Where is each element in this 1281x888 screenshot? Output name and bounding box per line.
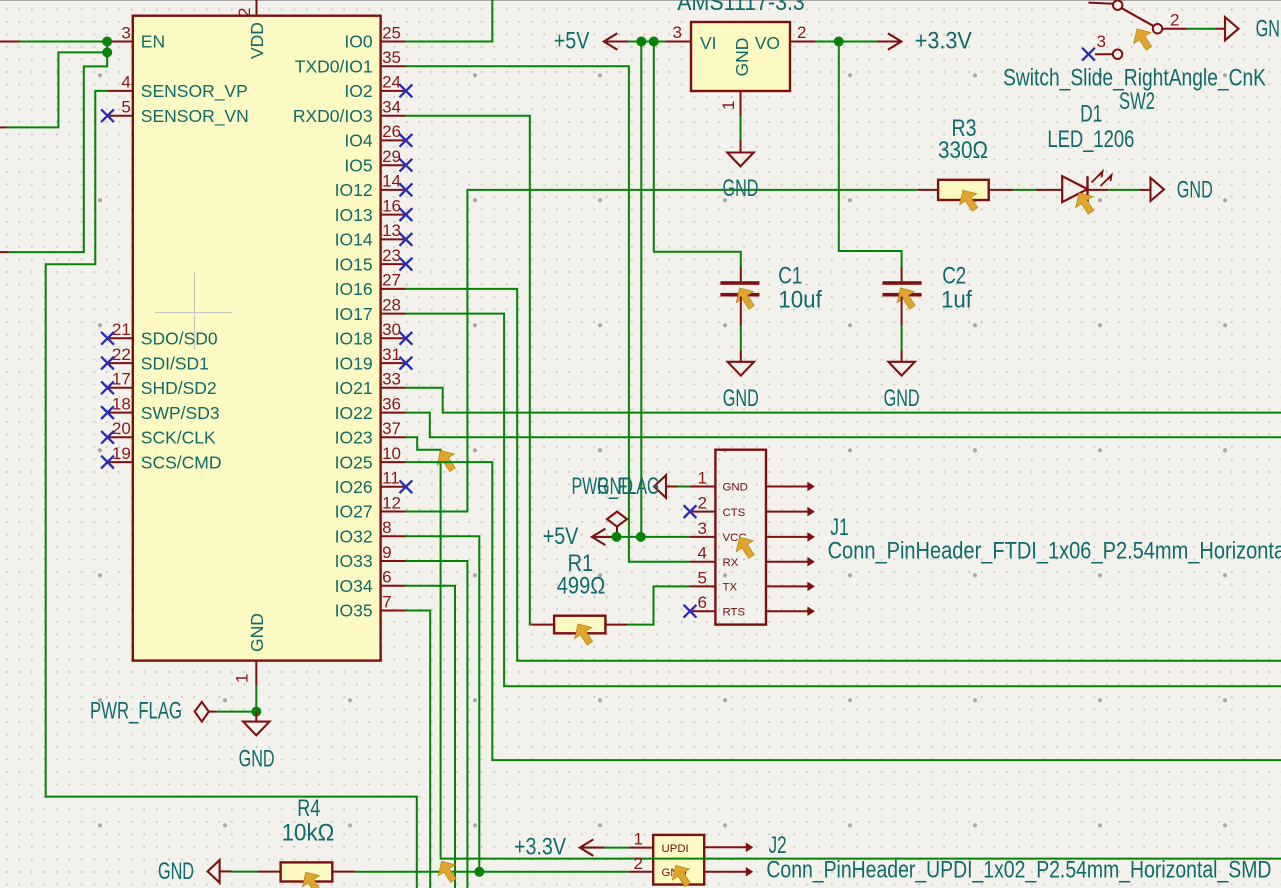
ESP32 module U1 body: [133, 16, 381, 661]
svg-text:IO35: IO35: [335, 601, 373, 621]
svg-text:+5V: +5V: [554, 28, 590, 55]
svg-text:13: 13: [382, 221, 401, 240]
svg-text:TXD0/IO1: TXD0/IO1: [295, 56, 373, 76]
svg-text:R4: R4: [297, 795, 320, 822]
U2 pin 2 VO stub: [790, 41, 815, 43]
svg-text:1: 1: [719, 101, 738, 110]
svg-text:IO25: IO25: [335, 452, 373, 472]
U1 right pin 23 IO15: [381, 263, 406, 265]
wire +5V to U2 VI: [628, 41, 666, 43]
wire IO35 to bottom edge: [406, 611, 430, 888]
svg-text:34: 34: [382, 98, 401, 117]
svg-text:4: 4: [121, 73, 130, 92]
svg-text:+3.3V: +3.3V: [514, 833, 566, 860]
U1 right pin 33 IO21: [381, 387, 406, 389]
svg-text:12: 12: [382, 493, 401, 512]
svg-text:20: 20: [112, 419, 131, 438]
regulator U2 body: [691, 22, 790, 91]
svg-text:GND: GND: [1256, 15, 1281, 42]
J1 pin 5 right arrow: [766, 585, 808, 587]
svg-text:IO4: IO4: [344, 131, 372, 151]
svg-text:2: 2: [634, 854, 643, 873]
U1 left pin 18 SWP/SD3: [108, 412, 133, 414]
svg-text:3: 3: [698, 519, 707, 538]
SW2 pin 2 stub: [1162, 28, 1187, 30]
ground symbol C1: [740, 351, 742, 362]
U1 left pin 17 SHD/SD2: [108, 387, 133, 389]
svg-text:18: 18: [112, 394, 131, 413]
C2 bottom lead: [901, 297, 903, 326]
J2 pin 2 GND: [629, 871, 653, 873]
svg-text:IO23: IO23: [335, 428, 373, 448]
ERC marker at IO23 corner: [437, 451, 455, 472]
wire GND label to J1 pin1: [677, 486, 690, 488]
resistor R4 lead right: [332, 871, 355, 873]
junction U1 GND: [251, 707, 261, 717]
svg-text:SDI/SD1: SDI/SD1: [141, 353, 209, 373]
J1 pin 5 TX: [690, 585, 715, 587]
svg-text:SDO/SD0: SDO/SD0: [141, 329, 218, 349]
ERC marker at J2: [672, 866, 690, 887]
wire IO0 to top edge: [406, 0, 492, 42]
svg-text:SENSOR_VN: SENSOR_VN: [141, 106, 249, 127]
svg-text:30: 30: [382, 320, 401, 339]
svg-text:Conn_PinHeader_FTDI_1x06_P2.54: Conn_PinHeader_FTDI_1x06_P2.54mm_Horizon…: [828, 538, 1281, 565]
svg-text:SHD/SD2: SHD/SD2: [141, 378, 217, 398]
J1 pin 1 right arrow: [766, 486, 808, 488]
switch SW2 pin1 line: [1089, 3, 1114, 4]
U1 right pin 10 IO25: [381, 461, 406, 463]
svg-text:1: 1: [698, 469, 707, 488]
svg-text:3: 3: [121, 23, 130, 42]
svg-text:GND: GND: [723, 175, 759, 202]
switch SW2 contact 3: [1113, 50, 1122, 59]
U1 right pin 35 TXD0/IO1: [381, 65, 406, 67]
resistor R3 lead left: [918, 189, 938, 191]
ground symbol at U1 GND: [255, 712, 257, 722]
ERC marker at IO23 rail corner: [438, 861, 456, 882]
ERC marker at J1 VCC: [736, 537, 754, 558]
junction EN b: [102, 47, 112, 57]
wire +5V row to J1 VCC: [616, 536, 690, 538]
wire TXD0/IO1 to J1 RX: [406, 66, 690, 562]
U1 right pin 27 IO16: [381, 288, 406, 290]
U1 right pin 12 IO27: [381, 511, 406, 513]
svg-text:25: 25: [382, 23, 401, 42]
U1 right pin 37 IO23: [381, 436, 406, 438]
svg-text:10: 10: [382, 444, 401, 463]
no-connect J1 pin 2: [684, 505, 697, 518]
svg-text:UPDI: UPDI: [662, 843, 689, 855]
svg-text:IO22: IO22: [335, 403, 373, 423]
J1 pin 2 right arrow: [766, 511, 808, 513]
svg-text:IO16: IO16: [335, 279, 373, 299]
global label GND (J1 pin1): [654, 475, 666, 498]
no-connect on pin 26: [400, 134, 413, 147]
svg-text:7: 7: [382, 592, 391, 611]
svg-text:28: 28: [382, 295, 401, 314]
svg-text:GND: GND: [247, 613, 267, 652]
wire C1 to GND: [740, 326, 742, 351]
wire GND label to R4: [232, 871, 259, 873]
U1 right pin 13 IO14: [381, 238, 406, 240]
svg-text:TX: TX: [723, 582, 738, 594]
U1 right pin 8 IO32: [381, 535, 406, 537]
wire EN vertical between junctions: [106, 42, 108, 53]
wire SENSOR_VP long run: [46, 91, 417, 888]
wire EN net to left edge: [0, 41, 20, 43]
U1 right pin 26 IO4: [381, 139, 406, 141]
svg-text:IO12: IO12: [335, 180, 373, 200]
global label GND (LED): [1140, 189, 1150, 191]
U1 left pin 20 SCK/CLK: [108, 436, 133, 438]
U2 pin 3 VI stub: [666, 41, 691, 43]
svg-text:24: 24: [382, 73, 401, 92]
svg-text:2: 2: [698, 494, 707, 513]
U1 right pin 28 IO17: [381, 313, 406, 315]
SW2 pin 3 stub: [1095, 53, 1113, 55]
svg-text:CTS: CTS: [723, 507, 746, 519]
wire R1 to J1 TX: [627, 586, 690, 624]
svg-text:499Ω: 499Ω: [557, 573, 606, 600]
svg-text:RTS: RTS: [723, 606, 746, 618]
switch SW2 contact 2: [1153, 24, 1162, 33]
ERC marker at D1: [1076, 193, 1094, 214]
capacitor C2 top lead: [901, 267, 903, 281]
junction +5V b: [649, 37, 659, 47]
ERC marker at R4: [302, 872, 320, 888]
svg-text:LED_1206: LED_1206: [1047, 126, 1134, 153]
LED D1 symbol: [1062, 176, 1087, 202]
junction +5V/PWR_FLAG: [612, 532, 622, 542]
ERC marker at R3: [960, 190, 978, 211]
svg-text:IO33: IO33: [335, 551, 373, 571]
resistor R4 lead left: [258, 871, 281, 873]
svg-text:36: 36: [382, 394, 401, 413]
svg-text:SCK/CLK: SCK/CLK: [141, 428, 216, 448]
U1 GND pin 1: [255, 661, 257, 686]
svg-text:IO19: IO19: [335, 353, 373, 373]
svg-text:6: 6: [698, 593, 707, 612]
resistor R1 body: [554, 616, 605, 634]
wire IO23 rail crossing J2: [652, 858, 706, 860]
no-connect on pin 30: [400, 332, 413, 345]
wire IO23 rail: [406, 437, 1281, 858]
capacitor C2 plates: [883, 281, 922, 285]
junction IO32/GND rail: [474, 867, 484, 877]
no-connect on pin 17: [101, 381, 114, 394]
no-connect on pin 29: [400, 159, 413, 172]
wire GND rail to J2 pin2: [355, 871, 629, 873]
svg-text:1uf: 1uf: [941, 287, 972, 314]
svg-text:17: 17: [112, 370, 131, 389]
no-connect on pin 22: [101, 357, 114, 370]
wire C2 to GND: [901, 326, 903, 351]
no-connect on pin 23: [400, 258, 413, 271]
svg-text:GND: GND: [158, 858, 194, 885]
junction +5V column: [636, 532, 646, 542]
wire U2 GND down: [740, 116, 742, 140]
U1 right pin 30 IO18: [381, 337, 406, 339]
symbol anchor cross: [155, 273, 232, 351]
J1 pin 6 RTS: [690, 610, 715, 612]
wire D1 to GND label: [1108, 189, 1139, 191]
svg-text:1: 1: [233, 674, 252, 683]
R1 lead right: [605, 624, 627, 626]
C1 bottom lead: [740, 297, 742, 326]
ERC marker at C2: [897, 288, 915, 309]
U1 right pin 11 IO26: [381, 486, 406, 488]
U1 left pin 5 SENSOR_VN: [108, 115, 133, 117]
svg-text:27: 27: [382, 271, 401, 290]
svg-text:+5V: +5V: [543, 523, 579, 550]
svg-text:VDD: VDD: [247, 22, 267, 59]
svg-text:IO14: IO14: [335, 230, 373, 250]
power flag PF1 diamond: [607, 512, 627, 527]
wire IO16 rail: [406, 289, 1281, 661]
svg-text:2: 2: [797, 23, 806, 42]
no-connect on pin 11: [400, 480, 413, 493]
svg-text:AMS1117-3.3: AMS1117-3.3: [677, 0, 805, 16]
svg-text:29: 29: [382, 147, 401, 166]
svg-text:IO0: IO0: [344, 32, 372, 52]
wire IO32 to GND rail: [406, 536, 479, 872]
resistor R4 body: [281, 862, 333, 881]
svg-text:5: 5: [698, 568, 707, 587]
U1 right pin 31 IO19: [381, 362, 406, 364]
U1 right pin 24 IO2: [381, 90, 406, 92]
U1 right pin 16 IO13: [381, 214, 406, 216]
switch SW2 contact 1: [1113, 1, 1122, 10]
connector J1 body: [715, 450, 766, 625]
svg-text:IO21: IO21: [335, 378, 373, 398]
LED D1 anode lead: [1035, 189, 1062, 191]
connector J2 body: [653, 835, 704, 885]
D1 cathode lead: [1088, 189, 1109, 191]
junction EN a: [102, 37, 112, 47]
U1 left pin 22 SDI/SD1: [108, 362, 133, 364]
ground symbol C2: [901, 351, 903, 362]
svg-text:SCS/CMD: SCS/CMD: [141, 452, 222, 472]
svg-text:2: 2: [1170, 10, 1179, 29]
J2 pin 1 right arrow: [704, 846, 746, 848]
U1 right pin 34 RXD0/IO3: [381, 115, 406, 117]
svg-text:21: 21: [112, 320, 131, 339]
svg-text:IO26: IO26: [335, 477, 373, 497]
svg-text:4: 4: [698, 544, 707, 563]
svg-text:1: 1: [634, 830, 643, 849]
J2 pin 1 UPDI: [629, 847, 653, 849]
J1 pin 1 GND: [690, 486, 715, 488]
wire +5V column to FTDI row: [640, 42, 642, 537]
R3 lead right: [989, 189, 1013, 191]
wire IO17 rail: [406, 314, 1281, 687]
svg-text:IO34: IO34: [335, 576, 373, 596]
svg-text:IO2: IO2: [344, 81, 372, 101]
wire R3 to D1: [1013, 189, 1035, 191]
svg-text:GND: GND: [723, 482, 748, 494]
svg-text:C2: C2: [942, 262, 966, 289]
no-connect on pin 20: [101, 431, 114, 444]
svg-text:14: 14: [382, 172, 401, 191]
svg-text:11: 11: [382, 469, 400, 488]
svg-text:26: 26: [382, 122, 401, 141]
svg-text:3: 3: [1097, 32, 1106, 51]
resistor R1 lead left: [532, 624, 554, 626]
wire U2 VO to +3.3V: [815, 41, 877, 43]
svg-text:EN: EN: [141, 32, 165, 52]
ERC marker at R1: [575, 624, 593, 645]
wire IO34 to bottom edge: [406, 586, 455, 888]
U1 left pin 3 EN: [108, 41, 133, 43]
svg-text:VO: VO: [755, 33, 780, 53]
wire +5V to C1: [654, 42, 741, 268]
wire RXD0/IO3 to R1: [406, 116, 532, 625]
svg-text:PWR_FLAG: PWR_FLAG: [90, 697, 182, 724]
J1 pin 4 right arrow: [766, 561, 808, 563]
no-connect SW2 pin 3: [1082, 48, 1095, 61]
svg-text:SW2: SW2: [1119, 88, 1155, 115]
svg-text:3: 3: [673, 23, 682, 42]
ERC marker at SW2: [1134, 29, 1152, 50]
svg-text:5: 5: [121, 98, 130, 117]
wire SW2 to GND label: [1187, 28, 1215, 30]
wire U1 GND pin to junction: [255, 686, 257, 712]
U1 VDD pin 2: [256, 0, 258, 16]
svg-text:SWP/SD3: SWP/SD3: [141, 403, 220, 423]
wire IO33 to bottom edge: [406, 561, 468, 888]
svg-text:IO18: IO18: [335, 329, 373, 349]
U1 left pin 19 SCS/CMD: [108, 461, 133, 463]
no-connect on pin 18: [101, 406, 114, 419]
J1 pin 6 right arrow: [766, 610, 808, 612]
no-connect on pin 24: [400, 85, 413, 98]
global label GND (SW2): [1215, 28, 1224, 30]
no-connect on pin 31: [400, 357, 413, 370]
wire IO25 rail: [406, 462, 1281, 760]
svg-text:2: 2: [235, 8, 254, 17]
svg-text:330Ω: 330Ω: [938, 137, 988, 164]
no-connect on pin 14: [400, 184, 413, 197]
no-connect on pin 13: [400, 233, 413, 246]
svg-text:IO15: IO15: [335, 254, 373, 274]
svg-text:23: 23: [382, 246, 401, 265]
svg-text:+3.3V: +3.3V: [915, 28, 972, 55]
svg-text:GND: GND: [732, 38, 752, 77]
wire IO27 up to LED row: [406, 190, 918, 512]
ERC marker at C1: [736, 288, 754, 309]
svg-text:22: 22: [112, 345, 131, 364]
U1 right pin 36 IO22: [381, 412, 406, 414]
U1 right pin 14 IO12: [381, 189, 406, 191]
svg-text:D1: D1: [1080, 100, 1102, 127]
svg-text:19: 19: [112, 444, 131, 463]
power label +3.3V (top): [877, 33, 902, 49]
U1 right pin 25 IO0: [381, 41, 406, 43]
J1 pin 3 VCC: [690, 536, 715, 538]
power flag PF2 diamond: [195, 702, 209, 722]
junction +5V a: [636, 37, 646, 47]
svg-text:35: 35: [382, 48, 401, 67]
svg-text:Conn_PinHeader_UPDI_1x02_P2.54: Conn_PinHeader_UPDI_1x02_P2.54mm_Horizon…: [766, 857, 1271, 884]
svg-text:C1: C1: [778, 262, 802, 289]
svg-text:10kΩ: 10kΩ: [282, 820, 335, 847]
svg-text:IO13: IO13: [335, 205, 373, 225]
U1 right pin 6 IO34: [381, 585, 406, 587]
no-connect J1 pin 6: [684, 605, 697, 618]
svg-text:IO17: IO17: [335, 304, 373, 324]
capacitor C1 top lead: [740, 267, 742, 281]
switch SW2 lever: [1122, 8, 1154, 26]
U1 right pin 29 IO5: [381, 164, 406, 166]
capacitor C1 plates: [720, 281, 759, 285]
no-connect on pin 19: [101, 456, 114, 469]
svg-text:IO32: IO32: [335, 527, 373, 547]
svg-text:10uf: 10uf: [778, 287, 822, 314]
svg-text:SENSOR_VP: SENSOR_VP: [141, 81, 248, 102]
svg-text:IO5: IO5: [344, 155, 372, 175]
wire +3.3V to C2: [839, 42, 902, 268]
svg-text:VI: VI: [700, 33, 717, 53]
svg-text:6: 6: [382, 568, 391, 587]
svg-text:33: 33: [382, 370, 401, 389]
svg-text:PWR_FLAG: PWR_FLAG: [572, 473, 660, 500]
wire IO21 rail: [406, 388, 1281, 413]
svg-text:J2: J2: [769, 832, 787, 859]
svg-text:37: 37: [382, 419, 401, 438]
wire IO22 rail: [406, 413, 1281, 438]
svg-text:RXD0/IO3: RXD0/IO3: [293, 106, 373, 126]
J2 pin 2 right arrow: [704, 871, 746, 873]
wire EN branch to left label: [7, 52, 107, 127]
svg-text:8: 8: [382, 518, 391, 537]
junction +3.3V: [834, 37, 844, 47]
svg-text:31: 31: [382, 345, 401, 364]
J1 pin 4 RX: [690, 561, 715, 563]
no-connect on pin 16: [400, 208, 413, 221]
wire +3.3V label to J2 pin1: [604, 847, 629, 849]
wire EN branch lower-left label: [9, 52, 108, 252]
J1 pin 3 right arrow: [766, 536, 808, 538]
svg-text:GND: GND: [1177, 176, 1213, 203]
U1 right pin 7 IO35: [381, 610, 406, 612]
U1 left pin 21 SDO/SD0: [108, 337, 133, 339]
svg-text:GND: GND: [884, 385, 920, 412]
ground symbol U2: [740, 140, 742, 153]
U1 left pin 4 SENSOR_VP: [108, 90, 133, 92]
svg-text:GND: GND: [239, 746, 275, 773]
resistor R3 body: [938, 180, 989, 200]
U1 right pin 9 IO33: [381, 560, 406, 562]
no-connect on pin 21: [101, 332, 114, 345]
svg-text:IO27: IO27: [335, 502, 373, 522]
no-connect on pin 5: [101, 109, 114, 122]
svg-text:9: 9: [382, 543, 391, 562]
U2 pin 1 GND stub: [740, 91, 742, 116]
svg-text:RX: RX: [723, 557, 739, 569]
svg-text:16: 16: [382, 196, 401, 215]
svg-text:GND: GND: [723, 385, 759, 412]
J1 pin 2 CTS: [690, 511, 715, 513]
